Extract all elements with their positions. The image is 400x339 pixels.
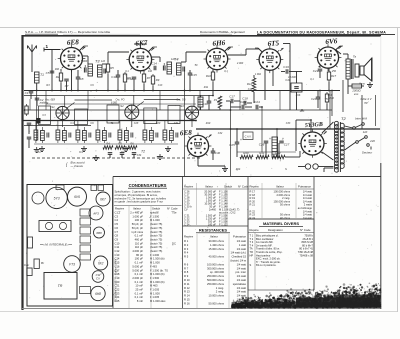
svg-text:S: S (250, 263, 252, 267)
capacitor C12 (127, 77, 136, 90)
wire x343 OT to T2 (342, 80, 344, 112)
svg-text:R 11: R 11 (184, 282, 190, 286)
chassis output transformer TR (44, 273, 77, 300)
node table middle rows (184, 190, 240, 227)
svg-text:Repère: Repère (250, 228, 260, 232)
capacitor C15 (188, 70, 197, 90)
svg-text:1 még.: 1 még. (216, 286, 224, 290)
chassis middle rect column (80, 209, 91, 294)
svg-text:100.000 ohms: 100.000 ohms (207, 262, 225, 266)
svg-text:Valeur: Valeur (205, 185, 213, 189)
svg-text:AF3: AF3 (92, 212, 99, 216)
node table CONDENSATEURS header (128, 183, 167, 188)
capacitor C26 electrolytic (259, 137, 271, 157)
wire coil group L6 feed (144, 121, 146, 128)
IF transformer T4 (163, 58, 184, 76)
tube V1 6E8 converter (58, 38, 86, 72)
node osc block S3 surround (168, 96, 194, 127)
node table right column header (249, 185, 314, 190)
svg-text:250: 250 (331, 70, 337, 73)
svg-text:10.000 ohms: 10.000 ohms (208, 294, 224, 298)
wire x262 vertical (261, 107, 263, 152)
wire bottom section top rule (113, 176, 381, 178)
svg-text:(butoir 75): (butoir 75) (150, 245, 162, 249)
svg-text:C4: C4 (115, 218, 119, 222)
svg-text:75e: 75e (172, 211, 177, 215)
switch Inter M/A (353, 117, 367, 130)
svg-text:1/4 watt: 1/4 watt (237, 262, 247, 266)
wire frame left border (21, 35, 23, 310)
svg-text:C18: C18 (115, 272, 120, 276)
node table MATERIEL DIVERS header (248, 219, 314, 290)
svg-text:C7: C7 (115, 230, 119, 234)
svg-text:+: + (282, 137, 284, 141)
svg-text:0,1 mF: 0,1 mF (135, 295, 144, 299)
svg-text:30.000 ohms: 30.000 ohms (208, 239, 224, 243)
wire x290 vertical (283, 44, 290, 111)
svg-text:Repère: Repère (184, 235, 194, 239)
svg-text:padding: padding (39, 102, 49, 105)
capacitor C35 (120, 153, 125, 158)
node header right LA DOCUMENTATION DU RADIODEPANNEUR (257, 30, 395, 34)
wire 6T5 drop a (264, 70, 266, 100)
chassis left small part c (24, 263, 32, 276)
wire x277 vertical (276, 129, 278, 152)
resistor R20 (240, 151, 253, 159)
svg-text:M 1.000 (tb): M 1.000 (tb) (150, 272, 165, 276)
wire coil group L5 feed (119, 121, 121, 128)
wire coil bank common (34, 143, 178, 145)
svg-text:C27: C27 (284, 143, 290, 147)
svg-text:C11: C11 (115, 245, 120, 249)
node chassis vertical edition text (114, 259, 118, 302)
svg-text:C5: C5 (115, 222, 119, 226)
svg-text:C21: C21 (115, 284, 120, 288)
svg-text:C23: C23 (240, 100, 246, 104)
node table RESISTANCES header (183, 226, 249, 239)
wire row2 sub bus (24, 125, 91, 127)
svg-text:C22: C22 (115, 288, 120, 292)
wire table rule v3 (247, 177, 249, 309)
capacitor C24 (254, 100, 262, 109)
wire screen bus (24, 109, 332, 111)
node Cote 4V label (361, 95, 376, 126)
antenna A1 (28, 45, 37, 73)
svg-text:220: 220 (369, 139, 375, 143)
node header left editor imprint (25, 30, 140, 34)
resistor R9 (151, 74, 159, 90)
svg-text:T2: T2 (341, 116, 346, 121)
svg-text:S.P.A. — I.P. Richard Villie: S.P.A. — I.P. Richard Villiers 17) — Rep… (25, 30, 111, 34)
svg-text:CONDENSATEURS: CONDENSATEURS (129, 183, 167, 188)
svg-text:(butoir 75): (butoir 75) (150, 230, 162, 234)
svg-text:R24: R24 (236, 168, 241, 171)
svg-text:(butoir 75): (butoir 75) (150, 241, 162, 245)
node table MATERIEL DIVERS rows (250, 234, 314, 268)
svg-text:5.000: 5.000 (81, 60, 88, 63)
svg-text:C28: C28 (134, 122, 139, 125)
svg-text:(butoir 75): (butoir 75) (150, 222, 162, 226)
svg-text:C24: C24 (115, 295, 120, 299)
coil group L6 (143, 127, 158, 143)
chassis tube 6F2 top view (94, 256, 108, 270)
svg-text:R22: R22 (275, 151, 281, 155)
wire 6V6 plate to T5 (336, 50, 348, 59)
ground osc (222, 166, 228, 172)
svg-text:50.000 ohms: 50.000 ohms (208, 301, 224, 305)
transformer T2 power (334, 116, 346, 172)
node table CONDENSATEURS intro (115, 190, 167, 204)
svg-text:6K7: 6K7 (100, 198, 106, 202)
svg-text:40.000 ohms: 40.000 ohms (208, 255, 224, 259)
svg-text:C15: C15 (191, 73, 197, 77)
chassis dial rects top (56, 185, 104, 191)
capacitor C4 left (27, 137, 32, 148)
wire x332 vertical to T2 (331, 91, 333, 117)
wire frame top border (24, 35, 382, 37)
svg-text:en garde ; les butoirs gradués: en garde ; les butoirs gradués pour F su… (115, 200, 164, 204)
chassis transformer can TA (46, 187, 67, 208)
svg-text:recherche TC, 3e harmonique op: recherche TC, 3e harmonique opt. échelle… (115, 196, 167, 200)
svg-text:110: 110 (363, 130, 368, 134)
coil group L4 (96, 127, 111, 143)
svg-text:1/4 watt (ch.): 1/4 watt (ch.) (230, 251, 246, 255)
svg-text:C18: C18 (248, 88, 253, 91)
capacitor C34 (108, 153, 113, 158)
svg-text:1/4 watt: 1/4 watt (237, 239, 247, 243)
svg-text:15.000 ohms: 15.000 ohms (208, 247, 224, 251)
tube V5 6V6 output (315, 37, 342, 71)
svg-text:0,1: 0,1 (224, 70, 228, 73)
svg-text:1/4 watt: 1/4 watt (237, 274, 247, 278)
svg-text:Chedited 15: Chedited 15 (232, 255, 247, 259)
svg-text:Switch: Switch (224, 185, 233, 189)
resistor R14 boxed (285, 72, 302, 111)
node table middle column header (183, 185, 249, 190)
svg-text:R23: R23 (300, 110, 305, 113)
svg-text:1/4 watt: 1/4 watt (237, 247, 247, 251)
node label O1 (79, 150, 83, 154)
svg-text:S1: S1 (51, 105, 55, 109)
svg-text:2.000: 2.000 (236, 62, 244, 65)
svg-text:R16: R16 (296, 94, 301, 97)
node table CONDENSATEURS rows (115, 211, 177, 304)
svg-text:«M. INTEGRALE»: «M. INTEGRALE» (43, 243, 69, 247)
svg-text:0,1: 0,1 (310, 78, 314, 81)
svg-text:C25: C25 (115, 299, 120, 303)
chassis tube 6B8 top view (94, 227, 105, 238)
svg-text:5.000 pF: 5.000 pF (132, 264, 143, 268)
wire coil group L4 feed (97, 121, 99, 128)
svg-text:Puissance: Puissance (298, 185, 311, 189)
resistor R17 (327, 68, 336, 90)
svg-text:F 1.005: F 1.005 (150, 288, 160, 292)
svg-text:80 pF: 80 pF (136, 253, 143, 257)
svg-text:Bloc accord: Bloc accord (71, 161, 86, 165)
svg-text:C3: C3 (115, 214, 119, 218)
svg-text:6H6: 6H6 (212, 39, 226, 48)
coil group L2 (56, 127, 71, 143)
svg-text:100 pF: 100 pF (135, 218, 144, 222)
wire extra drops (30, 90, 320, 141)
svg-text:C9: C9 (115, 237, 119, 241)
svg-text:R 14: R 14 (184, 294, 190, 298)
wire heater winding tap (324, 168, 333, 172)
svg-text:6.000: 6.000 (111, 102, 118, 105)
node chassis label M INTEGRALE (40, 243, 72, 247)
wire 6E8 plate to T3 (83, 56, 89, 64)
node net 1 grid line (44, 44, 61, 52)
svg-text:Inter M/A: Inter M/A (355, 117, 367, 121)
svg-text:R 12: R 12 (184, 286, 190, 290)
svg-text:6T5: 6T5 (267, 39, 280, 48)
svg-text:M 1.000: M 1.000 (150, 218, 160, 222)
wire rectifier cathode out (296, 120, 311, 151)
svg-text:M 1.500 (tb): M 1.500 (tb) (150, 257, 165, 261)
capacitor C16 (202, 95, 211, 110)
svg-text:et lampes, 25 périodiques. Bl: et lampes, 25 périodiques. Bl accus, (115, 193, 158, 197)
wire net y110 (196, 109, 231, 111)
node scan specks (26, 41, 379, 300)
svg-text:R 9: R 9 (184, 274, 189, 278)
capacitor C8 (76, 70, 84, 90)
svg-text:R11: R11 (204, 86, 209, 89)
switch wafer S1 (51, 105, 69, 120)
wire osc tube bottom (198, 157, 225, 166)
switch voltage selector (356, 130, 376, 146)
capacitor C27 electrolytic (279, 137, 290, 157)
svg-text:Documents CHADEL, Argenteuil: Documents CHADEL, Argenteuil (200, 30, 245, 34)
wire frame right border lower (380, 163, 382, 309)
wire 6E8 left vertical x52 (44, 50, 52, 91)
capacitor C14 (151, 62, 157, 71)
svg-text:M 1.000: M 1.000 (150, 261, 160, 265)
svg-text:500.000 ohms: 500.000 ohms (207, 278, 225, 282)
chassis IF can strip (39, 221, 71, 232)
svg-text:C33: C33 (286, 122, 291, 125)
switch wafer S2 (120, 104, 139, 119)
svg-text:8ans: 8ans (359, 82, 365, 86)
svg-text:100: 100 (148, 70, 153, 73)
svg-text:10 mF: 10 mF (135, 284, 143, 288)
svg-text:R 5: R 5 (184, 255, 189, 259)
svg-text:R 4: R 4 (184, 251, 189, 255)
tube V2 6K7 IF amplifier (126, 39, 154, 74)
svg-text:C12: C12 (115, 249, 120, 253)
svg-text:1/4 watt: 1/4 watt (237, 286, 247, 290)
svg-text:1 MΩ: 1 MΩ (255, 73, 261, 76)
svg-text:R2: R2 (56, 75, 60, 79)
node bloc accord tag (66, 161, 85, 169)
svg-text:M 463: M 463 (150, 284, 158, 288)
svg-text:1/4 watt: 1/4 watt (237, 294, 247, 298)
svg-text:R12: R12 (247, 82, 253, 86)
svg-text:Ta: Ta (353, 55, 357, 59)
svg-text:R 16: R 16 (184, 301, 190, 305)
svg-text:C14: C14 (151, 62, 157, 66)
svg-text:C34: C34 (137, 154, 142, 157)
svg-text:(butoir 75): (butoir 75) (150, 226, 162, 230)
capacitor C7 (64, 79, 69, 90)
svg-text:R9: R9 (156, 78, 160, 82)
svg-text:RESISTANCES: RESISTANCES (199, 228, 227, 233)
svg-text:C6: C6 (115, 226, 119, 230)
svg-text:50 ohms: 50 ohms (280, 203, 291, 207)
ground coil bank 3 (123, 146, 129, 152)
svg-text:R 21: R 21 (250, 203, 256, 207)
coil group L3 (76, 127, 91, 143)
wire 6V6 drop x330 (329, 91, 331, 130)
svg-text:C21: C21 (313, 69, 319, 73)
transformer T5 output (346, 55, 356, 95)
svg-text:(butoir 75): (butoir 75) (150, 234, 162, 238)
capacitor C25 electrolytic (229, 129, 242, 157)
chassis small can left (32, 192, 44, 204)
resistor R2 (56, 69, 63, 90)
wire 6T5 drop b (272, 70, 274, 86)
svg-text:R17: R17 (331, 74, 337, 78)
svg-text:F 1.005: F 1.005 (150, 295, 160, 299)
svg-text:4.000 pF: 4.000 pF (132, 249, 143, 253)
resistor R6 (123, 72, 131, 90)
wire table rule v4 (313, 177, 315, 291)
wire table rule v1 (112, 177, 114, 309)
svg-text:6B8: 6B8 (96, 231, 102, 235)
svg-text:1 pF mica: 1 pF mica (131, 230, 143, 234)
node CAV box (243, 132, 253, 140)
svg-text:Valeur: Valeur (210, 235, 218, 239)
svg-text:6V6: 6V6 (325, 37, 338, 46)
chassis left small part a (28, 237, 33, 248)
wire speaker drop x362 (361, 95, 363, 129)
resistor R16 under 6V6 (325, 92, 334, 110)
svg-text:460: 460 (55, 68, 60, 71)
resistor R7 (142, 71, 150, 91)
svg-text:F 1.000: F 1.000 (150, 253, 160, 257)
svg-text:0,1 mF: 0,1 mF (135, 234, 144, 238)
tube V4 6T5 indicator (256, 39, 283, 73)
svg-text:0,1 mF: 0,1 mF (135, 272, 144, 276)
svg-text:C19: C19 (283, 65, 289, 69)
resistor R22 (272, 151, 285, 159)
svg-text:C10: C10 (111, 75, 117, 79)
svg-text:(butoir 75): (butoir 75) (150, 249, 162, 253)
svg-text:R19: R19 (206, 122, 211, 125)
svg-text:C16: C16 (202, 102, 208, 106)
svg-text:75/408 x 08: 75/408 x 08 (299, 253, 313, 257)
svg-text:R 8: R 8 (184, 270, 189, 274)
wire page top scan edge (0, 27, 400, 29)
svg-text:R 2: R 2 (184, 243, 189, 247)
svg-text:C15: C15 (115, 261, 120, 265)
wire page right scan edge (397, 28, 399, 312)
wire band switch gang dashed (32, 157, 200, 159)
node table RESISTANCES rows (184, 239, 247, 305)
svg-text:Désignation: Désignation (268, 228, 283, 232)
svg-text:S3: S3 (180, 104, 184, 108)
capacitor C23 (231, 100, 253, 109)
svg-text:2 x 460 pF: 2 x 460 pF (130, 211, 143, 215)
wire tube top cap leads (79, 46, 343, 52)
svg-text:R7: R7 (147, 76, 151, 80)
svg-text:C12: C12 (127, 77, 133, 81)
node label T1 (37, 150, 41, 154)
svg-text:C21: C21 (311, 97, 316, 101)
wire T4 to 6H6 (181, 52, 206, 62)
capacitor C30 (211, 148, 221, 160)
svg-text:R 15: R 15 (184, 298, 190, 302)
coil group L5 (118, 127, 133, 143)
svg-text:R 6: R 6 (184, 262, 189, 266)
svg-text:N° Code: N° Code (300, 228, 311, 232)
svg-text:25 mF: 25 mF (135, 288, 143, 292)
svg-text:exc.: exc. (354, 92, 359, 96)
svg-text:C26: C26 (259, 143, 265, 147)
node label O2 (121, 150, 125, 154)
svg-text:M 1.000: M 1.000 (150, 291, 160, 295)
wire 6E8 cathode drop (71, 70, 73, 91)
svg-text:1/4 watt: 1/4 watt (237, 290, 247, 294)
svg-text:— chassis: — chassis (70, 164, 84, 168)
svg-text:C13: C13 (158, 84, 163, 87)
svg-text:110: 110 (101, 60, 106, 63)
chassis tube 6H8 top view (91, 286, 105, 300)
svg-text:1.000 pF: 1.000 pF (132, 214, 143, 218)
potentiometer P1 (214, 96, 222, 110)
capacitor C36 (132, 153, 142, 158)
capacitor C3 left (27, 123, 32, 134)
svg-text:C17: C17 (229, 95, 235, 99)
svg-text:Repère: Repère (250, 185, 260, 189)
svg-text:460 pF: 460 pF (135, 237, 144, 241)
wire coil group L3 feed (77, 121, 79, 128)
svg-text:C23: C23 (115, 291, 120, 295)
inductor field coil excitation (348, 84, 364, 96)
svg-text:1: 1 (46, 44, 49, 49)
wire 6K7 plate to T4 (152, 57, 160, 62)
svg-text:(butoir 75): (butoir 75) (150, 237, 162, 241)
svg-text:C31: C31 (174, 122, 179, 125)
svg-text:C16: C16 (115, 264, 120, 268)
svg-text:C5: C5 (46, 71, 50, 75)
tube V6 6E8 oscillator section (180, 129, 212, 160)
svg-text:R 7: R 7 (184, 266, 189, 270)
svg-text:R20: R20 (243, 151, 249, 155)
wire coil group L2 feed (57, 121, 59, 128)
svg-text:(butoir) 1/4 w: (butoir) 1/4 w (230, 259, 246, 263)
svg-text:C14: C14 (115, 257, 120, 261)
svg-text:5Y3: 5Y3 (54, 197, 60, 201)
fuse F1 (298, 164, 333, 169)
svg-text:0,1: 0,1 (125, 70, 129, 73)
wire T3 secondary to 6K7 grid (102, 52, 129, 64)
resistor R1 (21, 104, 28, 116)
svg-text:C30: C30 (215, 151, 221, 155)
wire filter chain out (285, 151, 300, 157)
svg-text:T2: T2 (141, 150, 145, 154)
svg-text:M 1.000 (tb): M 1.000 (tb) (150, 280, 165, 284)
wire AVC bus (24, 95, 213, 97)
ground padder right (157, 154, 163, 160)
tube V3 6H6 detector (204, 39, 231, 73)
svg-text:F 1.500: F 1.500 (150, 214, 160, 218)
coil group L7 (163, 127, 178, 143)
svg-text:5Y3GB: 5Y3GB (305, 122, 323, 129)
resistor R10 (206, 70, 215, 96)
chassis layout box (27, 185, 113, 307)
svg-text:C10: C10 (115, 241, 120, 245)
svg-text:Spécification : 2 gammes, avec: Spécification : 2 gammes, avec butoirs (115, 190, 162, 194)
